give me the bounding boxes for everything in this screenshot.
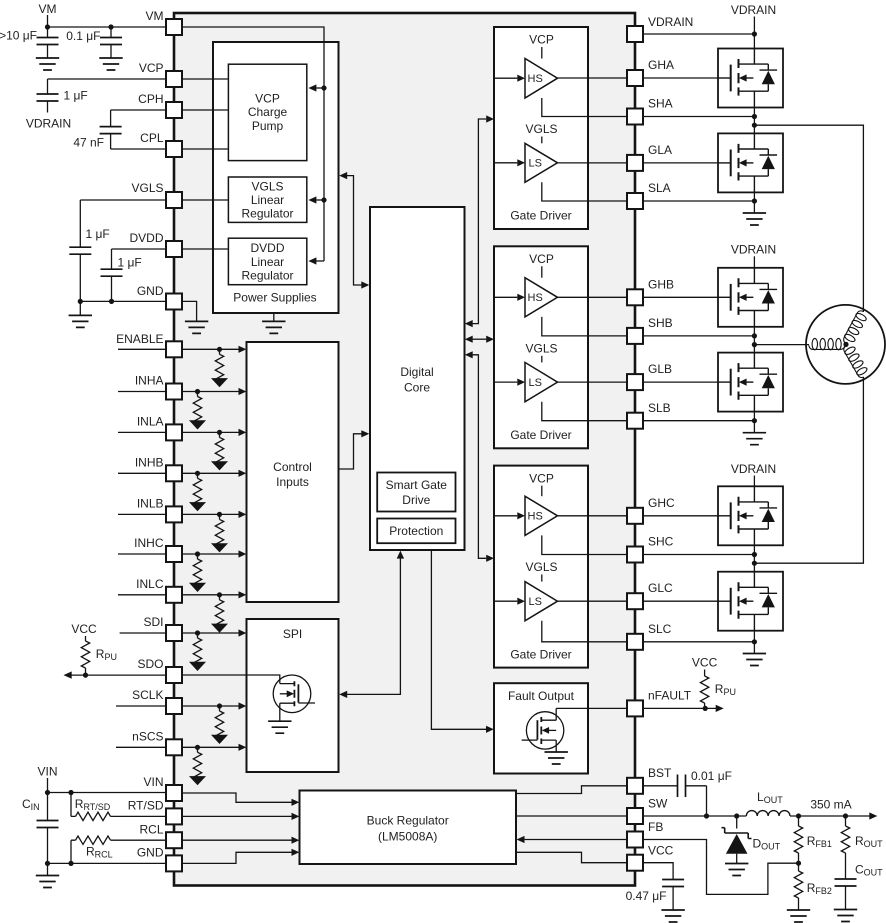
node VM cap1 junction bbox=[45, 24, 50, 29]
svg-text:LS: LS bbox=[529, 377, 542, 389]
wire Digital Core to Gate Driver B link bbox=[473, 338, 487, 340]
node SLA junction bbox=[752, 198, 757, 203]
wire SCLK internal with arrow bbox=[183, 705, 239, 707]
ground phase B low-side bbox=[743, 433, 766, 445]
wire HS B input arrow bbox=[494, 296, 517, 298]
op-amp LS driver C bbox=[525, 582, 558, 621]
wire GHA internal bbox=[558, 77, 628, 79]
pin VGLS bbox=[166, 192, 182, 208]
svg-text:VDRAIN: VDRAIN bbox=[731, 243, 776, 257]
pin VCC bbox=[627, 855, 643, 871]
svg-text:SPI: SPI bbox=[283, 627, 302, 641]
svg-text:Gate Driver: Gate Driver bbox=[510, 428, 571, 442]
resistor RPU left bbox=[85, 636, 87, 641]
pin GLC bbox=[627, 593, 643, 609]
svg-text:LOUT: LOUT bbox=[757, 790, 783, 805]
pin INLA bbox=[166, 424, 182, 440]
svg-text:SLA: SLA bbox=[648, 181, 671, 195]
ground DOUT bbox=[725, 864, 748, 876]
capacitor 1 uF VCP to VDRAIN bbox=[47, 79, 49, 94]
pin CPH bbox=[166, 102, 182, 118]
wire Digital Core to SPI link bbox=[347, 558, 400, 694]
pin ENABLE bbox=[166, 341, 182, 357]
svg-text:Gate Driver: Gate Driver bbox=[510, 209, 571, 223]
ground 0.47 uF cap bbox=[661, 910, 684, 922]
pin INLC bbox=[166, 587, 182, 603]
wire INHB internal with arrow bbox=[183, 472, 239, 474]
motor winding phase B coil bbox=[809, 338, 846, 349]
svg-text:DOUT: DOUT bbox=[753, 837, 781, 852]
node GND CIN junction bbox=[45, 861, 50, 866]
svg-text:GLC: GLC bbox=[648, 581, 673, 595]
block SPI bbox=[247, 619, 339, 772]
svg-text:GLB: GLB bbox=[648, 362, 672, 376]
wire SHC internal bbox=[542, 535, 627, 554]
wire low-side C source to ground bbox=[753, 631, 755, 654]
wire SHA external bbox=[643, 116, 754, 118]
svg-text:SDO: SDO bbox=[137, 657, 163, 671]
resistor INHC pulldown bbox=[189, 554, 206, 592]
node motor star point bbox=[843, 342, 848, 347]
pin SDO bbox=[166, 667, 182, 683]
wire SCLK external stub bbox=[116, 705, 167, 707]
svg-text:SHB: SHB bbox=[648, 316, 673, 330]
wire phase A node vertical bbox=[753, 108, 755, 134]
wire phase B node vertical bbox=[753, 327, 755, 353]
svg-text:Drive: Drive bbox=[402, 493, 430, 507]
svg-text:VM: VM bbox=[39, 2, 57, 16]
svg-text:Charge: Charge bbox=[248, 105, 288, 119]
capacitor COUT bbox=[835, 879, 857, 886]
node GND VGLS-cap junction bbox=[78, 299, 83, 304]
block VGLS Linear Regulator bbox=[228, 177, 306, 222]
pin INHA bbox=[166, 384, 182, 400]
ground GND pin internal bbox=[185, 321, 208, 333]
wire VGLS to LS driver A bbox=[541, 137, 543, 144]
svg-text:RCL: RCL bbox=[139, 823, 163, 837]
node VM feed VCP junction bbox=[321, 85, 326, 90]
node GND DVDD-cap junction bbox=[109, 299, 114, 304]
svg-text:LS: LS bbox=[529, 158, 542, 170]
node VIN CIN junction bbox=[45, 790, 50, 795]
wire SDO external with arrow bbox=[72, 674, 168, 676]
svg-text:GND: GND bbox=[137, 846, 164, 860]
wire LS C input arrow bbox=[494, 600, 517, 602]
svg-text:Digital: Digital bbox=[400, 365, 433, 379]
wire HS A input arrow bbox=[494, 77, 517, 79]
pin RT/SD bbox=[166, 808, 182, 824]
svg-text:BST: BST bbox=[648, 766, 672, 780]
wire SHC external bbox=[643, 554, 754, 556]
block VCP Charge Pump bbox=[228, 64, 306, 160]
wire GLC external bbox=[643, 600, 718, 602]
svg-text:ENABLE: ENABLE bbox=[116, 332, 163, 346]
pin GND bottom bbox=[166, 855, 182, 871]
node phase B output junction bbox=[752, 342, 757, 347]
wire CIN ground stub bbox=[47, 863, 49, 875]
capacitor 0.47 uF VCC bbox=[643, 863, 673, 880]
pin VDRAIN bbox=[627, 26, 643, 42]
resistor INLB pulldown bbox=[211, 514, 228, 552]
svg-text:Pump: Pump bbox=[252, 119, 284, 133]
capacitor 1 uF VGLS bbox=[79, 200, 81, 247]
wire phase A to motor bbox=[754, 125, 863, 312]
wire arrow into DVDD regulator bbox=[316, 260, 324, 262]
op-amp HS driver A bbox=[525, 59, 558, 99]
wire VCP external bbox=[48, 78, 168, 80]
wire VGLS to LS driver B bbox=[541, 356, 543, 363]
wire SLB external bbox=[643, 420, 754, 422]
svg-text:SHC: SHC bbox=[648, 535, 674, 549]
block Digital Core bbox=[370, 207, 465, 550]
svg-text:CIN: CIN bbox=[22, 797, 40, 812]
svg-text:Buck Regulator: Buck Regulator bbox=[367, 813, 449, 827]
pin SLB bbox=[627, 413, 643, 429]
capacitor 0.1 uF bbox=[110, 27, 112, 38]
svg-text:LS: LS bbox=[529, 596, 542, 608]
pin GLA bbox=[627, 155, 643, 171]
wire SHB external bbox=[643, 335, 754, 337]
svg-text:Linear: Linear bbox=[251, 255, 284, 269]
svg-text:Linear: Linear bbox=[251, 193, 284, 207]
wire ENABLE internal with arrow bbox=[183, 348, 239, 350]
wire HS C input arrow bbox=[494, 515, 517, 517]
capacitor 47 nF flying bbox=[110, 110, 112, 127]
wire VIN external bbox=[48, 778, 168, 793]
wire BST internal bbox=[516, 786, 627, 794]
ground Fault Output mosfet source bbox=[545, 752, 568, 764]
svg-text:Smart Gate: Smart Gate bbox=[386, 478, 448, 492]
svg-text:VDRAIN: VDRAIN bbox=[731, 462, 776, 476]
svg-text:INHC: INHC bbox=[134, 536, 164, 550]
resistor SCLK pulldown bbox=[211, 706, 228, 744]
ground below 0.1 uF cap bbox=[99, 58, 122, 70]
node RFB1 junction bbox=[796, 813, 801, 818]
svg-text:HS: HS bbox=[528, 511, 543, 523]
wire GLB external bbox=[643, 381, 718, 383]
resistor RRT/SD bbox=[71, 793, 76, 817]
wire arrow into VCP charge pump bbox=[316, 87, 324, 89]
transistor low-side C bbox=[718, 572, 783, 631]
block Gate Driver C bbox=[494, 466, 588, 668]
wire INHC external stub bbox=[118, 553, 167, 555]
wire VCC internal bbox=[516, 852, 627, 862]
svg-text:Core: Core bbox=[404, 381, 430, 395]
pin RCL bbox=[166, 832, 182, 848]
wire GLC internal bbox=[558, 600, 628, 602]
node SCLK pulldown junction bbox=[217, 703, 222, 708]
resistor INLC pulldown bbox=[211, 595, 228, 633]
resistor ROUT bbox=[845, 816, 847, 826]
svg-text:RFB1: RFB1 bbox=[807, 834, 832, 849]
svg-text:INLC: INLC bbox=[136, 577, 164, 591]
wire RCL internal with arrow bbox=[183, 839, 292, 841]
motor winding phase C coil bbox=[841, 341, 869, 379]
wire VCP to HS driver B bbox=[541, 266, 543, 277]
block Gate Driver B bbox=[494, 246, 588, 448]
svg-text:ROUT: ROUT bbox=[855, 834, 883, 849]
pin INHB bbox=[166, 465, 182, 481]
node phase A output junction bbox=[752, 123, 757, 128]
wire GND external bbox=[80, 300, 167, 302]
node INHC pulldown junction bbox=[195, 551, 200, 556]
pin SW bbox=[627, 808, 643, 824]
diode DOUT schottky bbox=[736, 816, 738, 829]
wire VCP to HS driver C bbox=[541, 486, 543, 497]
node INLB pulldown junction bbox=[217, 512, 222, 517]
svg-text:350 mA: 350 mA bbox=[810, 798, 851, 812]
op-amp LS driver A bbox=[525, 143, 558, 182]
wire SW external bbox=[643, 815, 746, 817]
svg-text:Regulator: Regulator bbox=[241, 269, 293, 283]
svg-text:RT/SD: RT/SD bbox=[128, 799, 164, 813]
wire GLB internal bbox=[558, 381, 628, 383]
wire INLC external stub bbox=[118, 594, 167, 596]
svg-text:VCC: VCC bbox=[692, 656, 718, 670]
transistor Fault Output open-drain MOSFET bbox=[526, 712, 563, 749]
svg-text:Protection: Protection bbox=[389, 524, 443, 538]
wire phase C to motor bbox=[754, 377, 863, 563]
wire SLA internal bbox=[542, 182, 627, 201]
wire ENABLE external stub bbox=[118, 348, 167, 350]
svg-text:RPU: RPU bbox=[715, 682, 736, 697]
node VM feed VGLS junction bbox=[321, 197, 326, 202]
node SW diode junction bbox=[734, 813, 739, 818]
wire low-side A source to ground bbox=[753, 192, 755, 213]
node SLB junction bbox=[752, 418, 757, 423]
svg-text:0.47 μF: 0.47 μF bbox=[626, 889, 667, 903]
ground COUT bbox=[834, 910, 857, 922]
wire INLB external stub bbox=[118, 513, 167, 515]
wire SDI internal with arrow bbox=[183, 632, 239, 634]
transistor high-side A bbox=[718, 49, 783, 108]
wire GHB internal bbox=[558, 296, 628, 298]
node SHA junction bbox=[752, 114, 757, 119]
node SDI pulldown junction bbox=[195, 630, 200, 635]
node phase C output junction bbox=[752, 561, 757, 566]
svg-text:CPH: CPH bbox=[138, 92, 163, 106]
svg-text:COUT: COUT bbox=[855, 863, 883, 878]
wire Power Supplies to Digital Core link bbox=[347, 176, 362, 285]
wire VDRAIN phase C vertical bbox=[753, 476, 755, 487]
node ENABLE pulldown junction bbox=[217, 347, 222, 352]
wire low-side B source to ground bbox=[753, 412, 755, 433]
svg-text:VIN: VIN bbox=[37, 764, 57, 778]
node INHB pulldown junction bbox=[195, 471, 200, 476]
wire INLA external stub bbox=[118, 431, 167, 433]
resistor nSCS pulldown bbox=[189, 747, 206, 785]
wire GND pin internal bbox=[183, 301, 197, 321]
svg-text:SHA: SHA bbox=[648, 97, 673, 111]
svg-text:Gate Driver: Gate Driver bbox=[510, 648, 571, 662]
resistor RPU right bbox=[704, 670, 706, 677]
node VM cap2 junction bbox=[108, 24, 113, 29]
pin SCLK bbox=[166, 698, 182, 714]
svg-text:SLC: SLC bbox=[648, 622, 672, 636]
pin SLA bbox=[627, 193, 643, 209]
resistor ENABLE pulldown bbox=[211, 349, 228, 387]
wire INHA internal with arrow bbox=[183, 391, 239, 393]
svg-text:VCP: VCP bbox=[529, 252, 554, 266]
block Smart Gate Drive bbox=[377, 473, 455, 512]
wire phase C node vertical bbox=[753, 545, 755, 571]
node nFAULT pull-up junction bbox=[703, 706, 708, 711]
wire VCP pin to charge pump bbox=[183, 78, 228, 80]
svg-text:HS: HS bbox=[528, 292, 543, 304]
wire Power Supplies ground stub bbox=[273, 313, 275, 321]
inductor LOUT bbox=[746, 811, 790, 816]
pin SDI bbox=[166, 625, 182, 641]
wire GND internal to buck with arrow bbox=[183, 852, 292, 863]
wire INLB internal with arrow bbox=[183, 513, 239, 515]
svg-text:1 μF: 1 μF bbox=[86, 227, 110, 241]
svg-text:1 μF: 1 μF bbox=[118, 256, 142, 270]
pin INHC bbox=[166, 546, 182, 562]
transistor high-side C bbox=[718, 486, 783, 545]
wire GHC external bbox=[643, 515, 718, 517]
resistor INLA pulldown bbox=[211, 432, 228, 470]
block Power Supplies bbox=[213, 42, 339, 313]
svg-text:1 μF: 1 μF bbox=[64, 89, 88, 103]
svg-text:nSCS: nSCS bbox=[132, 730, 163, 744]
svg-text:INLB: INLB bbox=[137, 497, 164, 511]
wire SW internal bbox=[516, 815, 627, 817]
wire FB internal with arrow bbox=[524, 839, 627, 841]
wire SDO internal to SPI mosfet drain bbox=[183, 675, 280, 684]
wire VDRAIN external bbox=[643, 33, 754, 35]
node FB divider junction bbox=[796, 861, 801, 866]
svg-text:VCC: VCC bbox=[71, 622, 97, 636]
svg-text:VDRAIN: VDRAIN bbox=[731, 3, 776, 17]
wire VGLS pin to regulator bbox=[183, 199, 228, 201]
node SHB junction bbox=[752, 333, 757, 338]
wire GHA external bbox=[643, 77, 718, 79]
svg-text:FB: FB bbox=[648, 820, 663, 834]
wire RT/SD internal with arrow bbox=[183, 815, 292, 817]
node INLA pulldown junction bbox=[217, 430, 222, 435]
wire nFAULT external with arrow bbox=[643, 707, 716, 709]
block DVDD Linear Regulator bbox=[228, 238, 306, 285]
transistor SPI open-drain MOSFET bbox=[273, 675, 311, 713]
capacitor >10 uF bbox=[47, 27, 49, 38]
transistor low-side B bbox=[718, 353, 783, 412]
wire VGLS external bbox=[80, 199, 167, 201]
wire INHC internal with arrow bbox=[183, 553, 239, 555]
wire DVDD pin to regulator bbox=[183, 248, 228, 250]
motor winding phase A coil bbox=[841, 309, 869, 347]
pin INLB bbox=[166, 506, 182, 522]
resistor RFB2 bbox=[798, 863, 800, 871]
wire FB external bbox=[643, 840, 799, 895]
wire INLA internal with arrow bbox=[183, 431, 239, 433]
svg-text:nFAULT: nFAULT bbox=[648, 689, 692, 703]
pin VIN bbox=[166, 785, 182, 801]
node GND RRCL junction bbox=[68, 861, 73, 866]
motor BLDC three-phase bbox=[806, 305, 885, 384]
wire VDRAIN phase A vertical bbox=[753, 17, 755, 49]
wire CPH external bbox=[111, 109, 167, 111]
pin SHC bbox=[627, 547, 643, 563]
svg-text:GHA: GHA bbox=[648, 58, 674, 72]
block Fault Output bbox=[494, 683, 588, 773]
node SDO pull-up junction bbox=[83, 673, 88, 678]
pin CPL bbox=[166, 141, 182, 157]
resistor RFB1 bbox=[798, 816, 800, 826]
wire GLA internal bbox=[558, 162, 628, 164]
wire VDRAIN phase B vertical bbox=[753, 256, 755, 268]
node SLC junction bbox=[752, 639, 757, 644]
svg-text:Regulator: Regulator bbox=[241, 207, 293, 221]
node SHC junction bbox=[752, 552, 757, 557]
resistor RRCL bbox=[71, 840, 76, 863]
capacitor CIN bbox=[47, 793, 49, 821]
resistor SDI pulldown bbox=[189, 633, 206, 671]
ground RFB2 bbox=[787, 910, 810, 922]
svg-text:VGLS: VGLS bbox=[131, 181, 163, 195]
svg-text:GLA: GLA bbox=[648, 143, 672, 157]
wire GHC internal bbox=[558, 515, 628, 517]
wire INLC internal with arrow bbox=[183, 594, 239, 596]
wire SLC internal bbox=[542, 621, 627, 642]
wire SDI external stub bbox=[120, 632, 167, 634]
wire INHA external stub bbox=[118, 391, 167, 393]
wire phase B to motor bbox=[754, 344, 809, 346]
svg-text:VCP: VCP bbox=[529, 33, 554, 47]
svg-text:SW: SW bbox=[648, 797, 668, 811]
svg-text:VCP: VCP bbox=[255, 91, 280, 105]
wire VM internal feed bbox=[183, 27, 324, 261]
svg-text:RFB2: RFB2 bbox=[807, 881, 832, 896]
ground SPI mosfet source bbox=[268, 721, 291, 733]
svg-text:RRCL: RRCL bbox=[86, 845, 113, 860]
svg-text:SDI: SDI bbox=[143, 615, 163, 629]
block Buck Regulator LM5008A bbox=[300, 791, 517, 865]
resistor INHB pulldown bbox=[189, 473, 206, 511]
IC body bbox=[174, 13, 635, 886]
pin VM bbox=[166, 19, 182, 35]
pin DVDD bbox=[166, 241, 182, 257]
node INHA pulldown junction bbox=[195, 389, 200, 394]
svg-text:VCP: VCP bbox=[139, 61, 164, 75]
node VIN RT/SD junction bbox=[68, 790, 73, 795]
svg-text:HS: HS bbox=[528, 73, 543, 85]
wire nSCS external stub bbox=[116, 746, 167, 748]
pin GHB bbox=[627, 289, 643, 305]
wire SLA external bbox=[643, 200, 754, 202]
svg-text:SLB: SLB bbox=[648, 401, 671, 415]
pin GLB bbox=[627, 374, 643, 390]
wire GND external ground stub bbox=[79, 301, 81, 315]
wire LS B input arrow bbox=[494, 381, 517, 383]
svg-text:GND: GND bbox=[137, 284, 164, 298]
pin SHA bbox=[627, 109, 643, 125]
op-amp HS driver B bbox=[525, 278, 558, 317]
wire Digital Core to Fault Output bbox=[431, 550, 486, 729]
wire VM external bbox=[48, 15, 168, 27]
node VDRAIN pin junction bbox=[752, 31, 757, 36]
wire nSCS internal with arrow bbox=[183, 746, 239, 748]
pin BST bbox=[627, 778, 643, 794]
svg-text:VGLS: VGLS bbox=[525, 560, 557, 574]
pin nSCS bbox=[166, 739, 182, 755]
svg-text:GHB: GHB bbox=[648, 278, 674, 292]
pin SHB bbox=[627, 328, 643, 344]
wire LS A input arrow bbox=[494, 162, 517, 164]
wire Digital Core to Gate Driver C link bbox=[473, 355, 487, 559]
svg-text:Fault Output: Fault Output bbox=[508, 689, 575, 703]
wire buck output with arrow bbox=[790, 815, 870, 817]
svg-text:Inputs: Inputs bbox=[276, 475, 309, 489]
